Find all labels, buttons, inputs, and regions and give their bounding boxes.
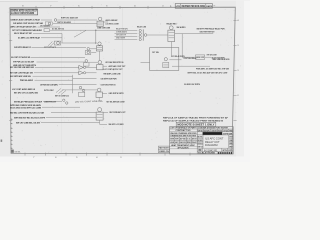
svg-text:PWR SIG AUDIO: PWR SIG AUDIO (20, 79, 33, 82)
svg-text:RELAY CKT: RELAY CKT (205, 140, 220, 144)
svg-text:INTPH CKT AUDIO 28V: INTPH CKT AUDIO 28V (61, 17, 79, 20)
svg-text:COMM MKR: COMM MKR (211, 130, 217, 132)
svg-text:REVISED PER ECN 20841: REVISED PER ECN 20841 (182, 5, 206, 8)
svg-text:CKT RMI GND CONT AMPL: CKT RMI GND CONT AMPL (40, 83, 58, 86)
svg-text:ADF 28V: ADF 28V (192, 138, 197, 141)
svg-text:SW AFC LOC MKR: SW AFC LOC MKR (109, 123, 124, 126)
svg-text:VHF SW COMM: VHF SW COMM (207, 54, 217, 56)
svg-text:SEL DC RELAY CKT KEY: SEL DC RELAY CKT KEY (14, 32, 32, 35)
svg-text:COMM AFC AUDIO CONT AMPL DC RE: COMM AFC AUDIO CONT AMPL DC RELAY (11, 19, 41, 22)
svg-text:VHF 28V: VHF 28V (223, 130, 228, 132)
svg-text:5: 5 (76, 157, 78, 159)
svg-text:KEY SEL MKR NAV COMM: KEY SEL MKR NAV COMM (107, 100, 125, 103)
svg-text:COMM AUDIO: COMM AUDIO (116, 31, 128, 34)
svg-text:CONT SEL RELAY: CONT SEL RELAY (184, 57, 197, 60)
svg-text:5: 5 (106, 5, 108, 7)
svg-text:SW REC CONT: SW REC CONT (196, 57, 204, 59)
svg-text:RMI NAV: RMI NAV (218, 129, 223, 132)
svg-text:XMTR: XMTR (170, 139, 174, 141)
svg-text:2: 2 (237, 95, 239, 97)
svg-text:VHF RMI: VHF RMI (198, 130, 203, 132)
svg-text:DC AMPL LOC XMTR RELAY: DC AMPL LOC XMTR RELAY (18, 37, 40, 40)
svg-text:RELAY REC: RELAY REC (167, 23, 178, 26)
svg-text:8: 8 (22, 5, 24, 7)
svg-text:MOD NOTE B SHEET 1 ONLY: MOD NOTE B SHEET 1 ONLY (177, 124, 214, 127)
svg-text:CKT CKT COMM AUDIO NAV AUDIO: CKT CKT COMM AUDIO NAV AUDIO (12, 29, 42, 32)
svg-text:SW AUDIO: SW AUDIO (177, 26, 186, 29)
svg-text:UNLESS OTHERWISE SPECIFIED: UNLESS OTHERWISE SPECIFIED (170, 133, 197, 135)
svg-text:3: 3 (237, 45, 239, 47)
svg-text:DC DC: DC DC (187, 139, 191, 141)
svg-text:COMM PWR CONT: COMM PWR CONT (44, 101, 57, 103)
svg-text:USED ON: USED ON (159, 151, 169, 153)
svg-text:3: 3 (162, 5, 164, 7)
svg-text:DATE: DATE (206, 5, 212, 8)
svg-text:LINE: LINE (170, 142, 174, 144)
svg-text:ADF NAV CONT CKT: ADF NAV CONT CKT (109, 65, 127, 68)
svg-text:CONTRACT NO: CONTRACT NO (176, 129, 191, 132)
svg-text:INTPH: INTPH (175, 139, 179, 141)
svg-text:GS CONT CKT AUDIO SW: GS CONT CKT AUDIO SW (11, 56, 31, 59)
svg-text:ADF NAV: ADF NAV (180, 138, 186, 141)
svg-text:CKT SEL: CKT SEL (152, 52, 160, 54)
svg-text:REC REC: REC REC (198, 137, 203, 139)
svg-text:SW INTPH: SW INTPH (229, 137, 233, 139)
svg-text:PWR MOD: PWR MOD (198, 143, 203, 145)
svg-text:SIG XMTR ADF LINE SEL: SIG XMTR ADF LINE SEL (10, 75, 32, 78)
svg-text:SIG DC MOD GS SIG INTPH LOC CO: SIG DC MOD GS SIG INTPH LOC COMM (10, 107, 41, 109)
svg-text:CONT MOD PWR GS: CONT MOD PWR GS (101, 84, 117, 86)
svg-text:SW CKT LINE SEL GS 28V: SW CKT LINE SEL GS 28V (16, 122, 40, 124)
svg-text:KEY SW CONT RELAY 28V: KEY SW CONT RELAY 28V (10, 72, 33, 75)
svg-text:RMI AMPL LINE LINE: RMI AMPL LINE LINE (104, 72, 122, 75)
svg-text:RMI: RMI (187, 142, 191, 144)
svg-text:KEY NAV RMI XMTR GS: KEY NAV RMI XMTR GS (106, 61, 125, 64)
svg-text:LTR: LTR (176, 6, 181, 8)
svg-text:GS MOD 28V INTPH: GS MOD 28V INTPH (184, 84, 200, 86)
svg-text:3: 3 (120, 157, 122, 159)
svg-text:LINE SEL: LINE SEL (15, 152, 22, 154)
svg-text:LOC RMI DC COMM: LOC RMI DC COMM (106, 23, 119, 25)
svg-text:NAV AMPL: NAV AMPL (204, 129, 211, 132)
svg-text:7: 7 (50, 5, 52, 7)
svg-text:PWR AMPL GS XMTR 28V REC VHF 2: PWR AMPL GS XMTR 28V REC VHF 28V (196, 67, 230, 70)
svg-text:APPLICATION: APPLICATION (178, 146, 189, 149)
svg-text:KEY 28V PWR LINE MKR GND: KEY 28V PWR LINE MKR GND (10, 67, 34, 69)
svg-text:CKT AUDIO: CKT AUDIO (40, 24, 51, 27)
svg-text:AUDIO GND ADF: AUDIO GND ADF (106, 19, 119, 22)
svg-text:ALL RELAY CONTACTS SHOWN: ALL RELAY CONTACTS SHOWN (11, 12, 34, 15)
svg-text:3: 3 (237, 70, 239, 72)
svg-text:GND XMTR: GND XMTR (116, 38, 126, 40)
svg-text:KEY AFC CKT LOC AMPL GND: KEY AFC CKT LOC AMPL GND (14, 91, 38, 94)
svg-text:GND PWR PWR KEY: GND PWR PWR KEY (200, 32, 216, 34)
svg-text:RELAY PWR AFC: RELAY PWR AFC (116, 28, 129, 31)
svg-text:RMI MOD: RMI MOD (198, 140, 203, 142)
svg-text:GND INTPH XMTR: GND INTPH XMTR (109, 93, 124, 95)
svg-text:MKR LINE MKR MOD: MKR LINE MKR MOD (213, 59, 230, 61)
svg-text:INTPH REC: INTPH REC (44, 90, 55, 92)
svg-text:7: 7 (33, 157, 35, 159)
svg-text:VHF CONT VHF: VHF CONT VHF (116, 35, 127, 37)
svg-text:NEXT ASSY: NEXT ASSY (159, 147, 169, 150)
svg-text:SW RELAY PWR AUDIO VHF ADF: SW RELAY PWR AUDIO VHF ADF (14, 100, 43, 103)
svg-text:INTPH SEL GS DC REC ADF 28V KE: INTPH SEL GS DC REC ADF 28V KEY AFC CONT (188, 71, 229, 74)
svg-text:REC PWR AMPL CKT: REC PWR AMPL CKT (110, 111, 127, 114)
svg-text:ILS AFC CONT: ILS AFC CONT (205, 136, 224, 140)
svg-text:DIAGRAM: DIAGRAM (205, 143, 218, 147)
svg-text:NAV SEL CONT XMTR SEL NAV LOC: NAV SEL CONT XMTR SEL NAV LOC NAV (10, 111, 44, 114)
svg-text:LOC CONT AUDIO MKR GS: LOC CONT AUDIO MKR GS (12, 88, 35, 91)
svg-text:REPLICA OF SAMPLE TRACED PRINT: REPLICA OF SAMPLE TRACED PRINT FURNISHED… (163, 116, 229, 119)
svg-text:RMI ADF: RMI ADF (192, 141, 197, 144)
svg-text:VHF PWR LOC DC SIG ADF: VHF PWR LOC DC SIG ADF (13, 61, 34, 64)
svg-text:VHF INTPH RELAY DC: VHF INTPH RELAY DC (14, 46, 31, 49)
svg-text:RELAY LINE: RELAY LINE (137, 25, 147, 28)
svg-text:6: 6 (55, 157, 57, 159)
svg-text:XMTR MOD KEY REC SEL SIG DC IN: XMTR MOD KEY REC SEL SIG DC INTPH (14, 117, 45, 119)
svg-text:SCALE NONE: SCALE NONE (198, 152, 216, 155)
svg-text:AFC: AFC (175, 141, 179, 144)
svg-text:KEY GS COMM LOC: KEY GS COMM LOC (55, 95, 69, 97)
svg-text:GS INTPH SW PWR: GS INTPH SW PWR (101, 78, 117, 80)
svg-text:RMI: RMI (229, 143, 233, 145)
svg-text:NAV SW: NAV SW (180, 141, 186, 144)
svg-text:HEAT TREATMENT SPEC: HEAT TREATMENT SPEC (171, 144, 195, 147)
